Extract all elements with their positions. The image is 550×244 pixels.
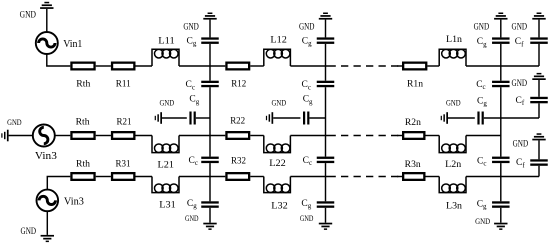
ground (top of node column n) bbox=[494, 13, 507, 38]
label R12 bbox=[231, 79, 246, 89]
svg-text:GND: GND bbox=[299, 21, 315, 31]
label Cc (column n, rows 2-3) bbox=[477, 156, 486, 167]
label GND (column 2 bottom) bbox=[300, 213, 314, 223]
wire row 2 node to Cc2 (col 2) bbox=[325, 136, 327, 157]
inductor L2n bbox=[439, 136, 466, 153]
ground (row 2 Cf) bbox=[532, 73, 545, 97]
label GND (row 2 Cf) bbox=[512, 78, 528, 88]
svg-text:GND: GND bbox=[475, 216, 490, 226]
inductor L22 bbox=[264, 136, 291, 153]
capacitor Cg (column 1, row 1) bbox=[201, 37, 219, 43]
svg-text:GND: GND bbox=[512, 21, 528, 31]
svg-text:R32: R32 bbox=[231, 156, 246, 166]
label GND (column n top) bbox=[474, 21, 490, 31]
wire row1 node to Cc (col n) bbox=[500, 66, 502, 81]
wire row 2 node to Cc2 (col 1) bbox=[209, 136, 211, 157]
wire Cc to row 2 node (col 2) bbox=[325, 87, 327, 135]
label R31 bbox=[116, 160, 131, 170]
label R32 bbox=[231, 156, 246, 166]
wire dash to R1n bbox=[397, 65, 402, 67]
wire R2n-L2n bbox=[426, 135, 440, 137]
capacitor Cg (row 2 branch, col 1) bbox=[189, 112, 195, 125]
label Rth (row 3) bbox=[76, 160, 90, 170]
svg-text:GND: GND bbox=[300, 213, 314, 223]
svg-text:GND: GND bbox=[513, 139, 529, 149]
svg-text:GND: GND bbox=[20, 9, 37, 19]
ground (row 3 Cf) bbox=[532, 133, 545, 159]
resistor R31 bbox=[112, 173, 134, 180]
label Cg (row 2 branch, col n) bbox=[477, 96, 487, 107]
capacitor Cf (row 3) bbox=[530, 159, 548, 166]
ground (row 1 Cf, top right) bbox=[532, 13, 545, 38]
dashed wire (row 1 continuation) bbox=[329, 65, 400, 67]
label GND (row 2 left) bbox=[7, 117, 22, 127]
svg-text:L3n: L3n bbox=[446, 201, 462, 211]
resistor R3n bbox=[403, 173, 424, 180]
capacitor Cg (column 2, row 1) bbox=[317, 37, 335, 43]
label Vin1 bbox=[63, 39, 82, 50]
svg-text:GND: GND bbox=[183, 21, 199, 31]
wire row 3 node to Cg3 (col n) bbox=[500, 177, 502, 202]
wire Cg3 to bottom ground (col 2) bbox=[325, 208, 327, 223]
svg-text:L32: L32 bbox=[271, 201, 288, 211]
wire Cf to row 1 end bbox=[538, 44, 540, 66]
inductor L12 bbox=[264, 49, 291, 66]
label L11 bbox=[158, 36, 175, 46]
label Rth (row 1) bbox=[76, 79, 90, 89]
resistor R21 bbox=[112, 132, 134, 139]
label R1n bbox=[407, 79, 423, 89]
ground (row 2 branch, column 2) bbox=[266, 112, 273, 124]
wire Rth-R21 bbox=[96, 135, 111, 137]
wire row 2 node to Cc2 (col n) bbox=[500, 136, 502, 157]
capacitor Cc (column n, rows 1-2) bbox=[492, 81, 510, 88]
wire R31-L31 bbox=[136, 176, 153, 178]
wire L22 to node col 2 bbox=[290, 135, 328, 137]
svg-text:GND: GND bbox=[474, 21, 490, 31]
label Vin3 (bottom) bbox=[64, 196, 84, 207]
wire dash to R3n bbox=[397, 176, 402, 178]
wire L32 to node col 2 bbox=[290, 176, 328, 178]
inductor L21 bbox=[152, 136, 179, 153]
label Cg (column n, row 1) bbox=[477, 37, 487, 48]
inductor L1n bbox=[439, 49, 466, 66]
ground (top left, above Vin1) bbox=[40, 2, 53, 32]
ground (bottom of column n) bbox=[494, 223, 507, 230]
AC source Vin3 (middle) bbox=[33, 125, 55, 147]
svg-text:R22: R22 bbox=[230, 117, 245, 127]
capacitor Cg (column n, row 1) bbox=[492, 37, 510, 43]
svg-text:R21: R21 bbox=[117, 117, 132, 127]
label Cg (column n, row 3) bbox=[477, 199, 487, 210]
wire branch Cg to column 2 bbox=[309, 117, 325, 119]
label GND (row 3 Cf) bbox=[513, 139, 529, 149]
ground (bottom of column 1) bbox=[203, 223, 216, 230]
svg-text:Vin3: Vin3 bbox=[64, 196, 84, 207]
wire Vin3 (bottom) up to row 3 bbox=[47, 177, 70, 190]
wire branch ground to Cg (col n) bbox=[448, 117, 475, 119]
label L1n bbox=[446, 35, 462, 45]
wire ground to Vin3 (middle) bbox=[9, 135, 33, 137]
resistor R22 bbox=[226, 132, 249, 139]
capacitor Cc (column 1, rows 1-2) bbox=[201, 81, 219, 88]
wire Cc2 to row 3 node (col 2) bbox=[325, 163, 327, 176]
svg-text:GND: GND bbox=[512, 78, 528, 88]
capacitor Cg (row 2 branch, col 2) bbox=[303, 112, 309, 125]
label GND (row 2 branch, col n) bbox=[446, 97, 461, 107]
svg-text:GND: GND bbox=[160, 98, 175, 108]
wire Vin3 to Rth (row 2) bbox=[55, 135, 71, 137]
svg-text:GND: GND bbox=[185, 213, 199, 223]
label R2n bbox=[405, 118, 421, 128]
resistor Rth (row 3) bbox=[71, 173, 94, 180]
svg-text:Rth: Rth bbox=[76, 79, 90, 89]
label GND (row 2 branch, col 1) bbox=[160, 98, 175, 108]
label Cg (row 2 branch, col 1) bbox=[189, 95, 199, 106]
wire branch Cg to column n and Cf column bbox=[484, 117, 539, 119]
svg-text:GND: GND bbox=[7, 117, 22, 127]
dashed wire (row 2 continuation) bbox=[329, 135, 400, 137]
svg-text:R2n: R2n bbox=[405, 118, 421, 128]
wire Vin1 to Rth (row 1) bbox=[47, 54, 71, 67]
wire Cg to row 1 node (col n) bbox=[500, 44, 502, 66]
svg-text:Vin1: Vin1 bbox=[63, 39, 82, 50]
resistor R1n bbox=[403, 63, 426, 70]
wire R21-L21 bbox=[136, 135, 153, 137]
svg-text:GND: GND bbox=[446, 97, 461, 107]
wire branch Cg to column 1 bbox=[196, 117, 210, 119]
svg-text:Vin3: Vin3 bbox=[35, 151, 57, 162]
label Cc (column 1, rows 1-2) bbox=[186, 80, 195, 91]
wire row 3 node to Cg3 (col 2) bbox=[325, 177, 327, 202]
wire Cc2 to row 3 node (col n) bbox=[500, 163, 502, 176]
label Cg (row 2 branch, col 2) bbox=[303, 95, 313, 106]
capacitor Cc (column n, rows 2-3) bbox=[492, 157, 510, 164]
svg-text:Rth: Rth bbox=[76, 160, 90, 170]
capacitor Cf (row 2) bbox=[530, 97, 548, 104]
svg-text:Rth: Rth bbox=[76, 117, 90, 127]
wire row1 node to Cc (col 1) bbox=[209, 66, 211, 81]
wire L12 to node col 2 bbox=[290, 65, 328, 67]
wire row1 node to Cc (col 2) bbox=[325, 66, 327, 81]
wire L1n to line end (row 1) bbox=[466, 65, 539, 67]
svg-text:L12: L12 bbox=[270, 35, 287, 45]
svg-text:GND: GND bbox=[272, 98, 287, 108]
inductor L11 bbox=[152, 49, 179, 66]
label Cg (column 2, row 1) bbox=[302, 36, 312, 47]
capacitor Cc (column 2, rows 1-2) bbox=[317, 81, 335, 88]
svg-text:L21: L21 bbox=[158, 160, 175, 170]
resistor R32 bbox=[226, 173, 249, 180]
label L31 bbox=[159, 201, 176, 211]
svg-text:R11: R11 bbox=[116, 79, 131, 89]
label Vin3 (middle) bbox=[35, 151, 57, 162]
resistor R12 bbox=[226, 63, 249, 70]
label Cc (column n, rows 1-2) bbox=[476, 80, 485, 91]
label Cc (column 1, rows 2-3) bbox=[189, 156, 198, 167]
label GND (column 2 top) bbox=[299, 21, 315, 31]
wire branch ground to Cg (col 2) bbox=[273, 117, 300, 119]
label L21 bbox=[158, 160, 175, 170]
dashed wire (row 3 continuation) bbox=[329, 176, 400, 178]
wire Rth-R31 bbox=[96, 176, 111, 178]
label Rth (row 2) bbox=[76, 117, 90, 127]
label GND (row 1 Cf) bbox=[512, 21, 528, 31]
label GND (row 2 branch, col 2) bbox=[272, 98, 287, 108]
svg-text:L31: L31 bbox=[159, 201, 176, 211]
label Cc (column 2, rows 1-2) bbox=[302, 80, 311, 91]
wire branch ground to Cg (col 1) bbox=[162, 117, 187, 119]
label R3n bbox=[405, 160, 421, 170]
svg-text:R31: R31 bbox=[116, 160, 131, 170]
label L2n bbox=[445, 160, 461, 170]
capacitor Cc (column 1, rows 2-3) bbox=[201, 157, 219, 164]
wire L21 to R22 (through node col 1) bbox=[179, 135, 225, 137]
wire Cg to row 1 node (col 1) bbox=[209, 44, 211, 66]
capacitor Cg (column n, row 3) bbox=[492, 201, 510, 208]
label L12 bbox=[270, 35, 287, 45]
wire R12-L12 bbox=[250, 65, 263, 67]
capacitor Cf (row 1) bbox=[530, 37, 548, 43]
wire L2n to node col n (row 2 end) bbox=[466, 135, 501, 137]
wire Cf row2 to branch line bbox=[538, 103, 540, 118]
wire row 3 node to Cg3 (col 1) bbox=[209, 177, 211, 202]
wire R32-L32 bbox=[250, 176, 263, 178]
ground (top of node column 2) bbox=[319, 13, 332, 38]
wire L3n to row 3 end bbox=[466, 176, 539, 178]
ground (bottom of column 2) bbox=[319, 223, 332, 230]
label GND (bottom left) bbox=[21, 226, 37, 236]
capacitor Cg (column 2, row 3) bbox=[317, 201, 335, 208]
label Cg (column 1, row 3) bbox=[187, 199, 197, 210]
ground (row 2 branch, column 1) bbox=[155, 112, 162, 124]
label R22 bbox=[230, 117, 245, 127]
ground (below Vin3 bottom) bbox=[41, 235, 54, 242]
svg-text:R1n: R1n bbox=[407, 79, 423, 89]
AC source Vin1 bbox=[36, 32, 58, 54]
label R21 bbox=[117, 117, 132, 127]
ground (top of node column 1) bbox=[203, 13, 216, 38]
wire Vin3 (bottom) to ground bbox=[46, 211, 48, 235]
label Cg (column 1, row 1) bbox=[187, 36, 197, 47]
wire L31 to R32 (through node col 1) bbox=[179, 176, 225, 178]
ground (row 2 branch, column n) bbox=[441, 112, 448, 124]
wire R1n-L1n bbox=[427, 65, 439, 67]
svg-text:L22: L22 bbox=[269, 159, 286, 169]
inductor L3n bbox=[439, 177, 466, 193]
svg-text:L11: L11 bbox=[158, 36, 175, 46]
wire Cf row3 to row 3 end bbox=[538, 166, 540, 177]
svg-text:R3n: R3n bbox=[405, 160, 421, 170]
resistor Rth (row 1) bbox=[71, 63, 94, 70]
wire Cg3 to bottom ground (col n) bbox=[500, 208, 502, 223]
wire Cc to row 2 node (col 1) bbox=[209, 87, 211, 135]
svg-text:L1n: L1n bbox=[446, 35, 462, 45]
wire L11 to R12 (through node col 1) bbox=[179, 65, 225, 67]
label Cf (row 3) bbox=[516, 158, 525, 169]
capacitor Cg (row 2 branch, col n) bbox=[477, 112, 483, 125]
resistor R2n bbox=[403, 132, 424, 139]
label R11 bbox=[116, 79, 131, 89]
label GND (column 1 top) bbox=[183, 21, 199, 31]
svg-text:R12: R12 bbox=[231, 79, 246, 89]
label Cg (column 2, row 3) bbox=[301, 199, 311, 210]
label GND (top left) bbox=[20, 9, 37, 19]
label L22 bbox=[269, 159, 286, 169]
label Cf (row 1) bbox=[515, 37, 524, 48]
inductor L32 bbox=[264, 177, 291, 193]
label Cf (row 2) bbox=[516, 96, 525, 107]
inductor L31 bbox=[152, 177, 179, 193]
label GND (column n bottom) bbox=[475, 216, 490, 226]
wire Rth-R11 bbox=[96, 65, 111, 67]
label GND (column 1 bottom) bbox=[185, 213, 199, 223]
resistor R11 bbox=[112, 63, 134, 70]
capacitor Cg (column 1, row 3) bbox=[201, 201, 219, 208]
svg-text:L2n: L2n bbox=[445, 160, 461, 170]
capacitor Cc (column 2, rows 2-3) bbox=[317, 157, 335, 164]
resistor Rth (row 2) bbox=[71, 132, 94, 139]
wire R11-L11 bbox=[136, 65, 153, 67]
label L3n bbox=[446, 201, 462, 211]
label Cc (column 2, rows 2-3) bbox=[303, 156, 312, 167]
wire R22-L22 bbox=[250, 135, 263, 137]
wire R3n-L3n bbox=[426, 176, 440, 178]
label L32 bbox=[271, 201, 288, 211]
wire Cg3 to bottom ground (col 1) bbox=[209, 208, 211, 223]
svg-text:GND: GND bbox=[21, 226, 37, 236]
wire Cg to row 1 node (col 2) bbox=[325, 44, 327, 66]
ground (left of Vin3 middle) bbox=[1, 130, 8, 142]
wire dash to R2n bbox=[397, 135, 402, 137]
AC source Vin3 (bottom) bbox=[37, 190, 59, 212]
wire Cc2 to row 3 node (col 1) bbox=[209, 163, 211, 176]
wire Cc to row 2 node (col n) bbox=[500, 87, 502, 135]
